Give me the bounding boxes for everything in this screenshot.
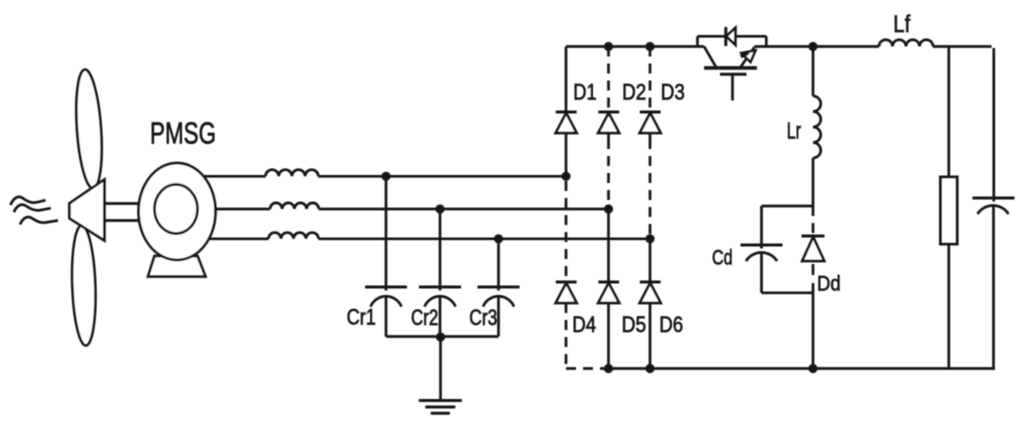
- bottom bus: [609, 367, 996, 370]
- leg3 solid: [649, 239, 652, 283]
- wind wave 1: [11, 197, 46, 205]
- diode D1: [556, 112, 577, 176]
- svg-text:Cr2: Cr2: [411, 305, 438, 330]
- diode Dd: [802, 236, 825, 261]
- leg2 dashed top: [607, 47, 610, 112]
- Lr lower wire: [812, 158, 815, 206]
- Lr branch wire: [812, 47, 815, 97]
- leg3 dashed top: [649, 47, 652, 112]
- generator outer circle: [139, 163, 216, 260]
- diode D4: [556, 282, 577, 303]
- phase C wire: [200, 237, 650, 240]
- svg-text:Cr1: Cr1: [347, 305, 376, 330]
- turbine blade top: [73, 69, 105, 189]
- generator base: [148, 256, 206, 277]
- diode D3: [640, 112, 661, 139]
- generator inner circle: [155, 185, 198, 234]
- svg-text:Lf: Lf: [893, 11, 910, 38]
- IGBT U1: [698, 27, 767, 101]
- Cd top branch: [762, 205, 814, 208]
- diode D5: [598, 282, 619, 303]
- svg-text:Lr: Lr: [787, 118, 801, 144]
- leg1 dashed bottom: [565, 303, 568, 369]
- leg3 bottom wire: [649, 303, 652, 369]
- svg-text:Cr3: Cr3: [469, 305, 497, 330]
- diode D6: [640, 282, 661, 303]
- ground lead: [439, 337, 442, 401]
- leg3 dashed mid: [649, 139, 652, 235]
- leg2 bottom wire: [607, 303, 610, 369]
- bottom bus dashed: [566, 367, 609, 370]
- Dd dashed top: [812, 206, 815, 235]
- capacitor Cr2: [419, 209, 461, 337]
- phase A wire: [200, 175, 566, 178]
- Dd lower wire: [812, 283, 815, 369]
- svg-text:Dd: Dd: [817, 271, 841, 295]
- top bus right: [755, 45, 992, 48]
- svg-text:D2: D2: [622, 79, 646, 104]
- output capacitor lead: [992, 48, 995, 202]
- inductor phase A: [266, 170, 319, 177]
- leg2 solid: [607, 209, 610, 283]
- svg-text:D5: D5: [622, 312, 647, 337]
- ground: [419, 401, 462, 414]
- capacitor Cr1: [365, 176, 407, 336]
- shaft: [100, 204, 145, 221]
- Dd dashed bottom: [812, 264, 815, 278]
- leg1 dashed mid: [565, 181, 568, 281]
- output capacitor: [973, 198, 1015, 369]
- wind wave 3: [20, 217, 58, 225]
- Cd bottom branch: [762, 291, 814, 294]
- svg-text:D4: D4: [572, 312, 596, 337]
- svg-text:D1: D1: [573, 79, 596, 104]
- leg1 top wire: [565, 47, 568, 114]
- inductor Lr: [813, 96, 821, 158]
- top bus: [566, 45, 704, 48]
- inductor Lf: [879, 40, 933, 47]
- turbine hub: [69, 180, 104, 241]
- svg-text:D3: D3: [661, 79, 685, 104]
- leg2 dashed mid: [607, 139, 610, 205]
- inductor phase C: [269, 233, 319, 239]
- Cr bottom bus: [386, 335, 499, 338]
- inductor phase B: [270, 203, 319, 209]
- load resistor lead top: [947, 47, 950, 178]
- svg-text:Cd: Cd: [712, 245, 733, 269]
- capacitor Cr3: [478, 239, 520, 337]
- svg-text:PMSG: PMSG: [150, 116, 216, 151]
- phase B wire: [210, 208, 609, 211]
- diode D2: [598, 112, 619, 139]
- load resistor lead bottom: [947, 244, 950, 369]
- svg-text:D6: D6: [659, 312, 683, 337]
- wind wave 2: [14, 205, 51, 213]
- turbine blade bottom: [70, 225, 97, 346]
- capacitor Cd: [741, 206, 783, 293]
- load resistor: [941, 177, 958, 244]
